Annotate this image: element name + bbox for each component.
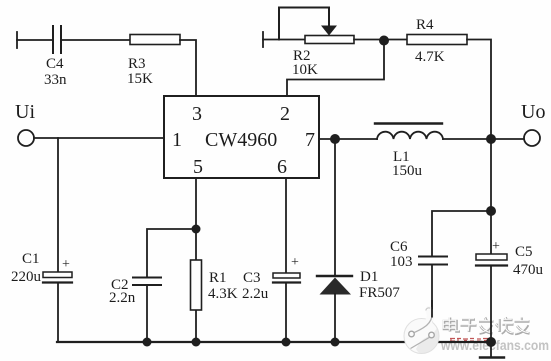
resistor R4	[407, 35, 467, 45]
svg-text:103: 103	[390, 254, 413, 270]
resistor R3	[130, 35, 180, 45]
svg-text:5: 5	[193, 156, 203, 178]
svg-text:D1: D1	[360, 269, 378, 285]
ground rail wire	[57, 341, 491, 343]
wire pin5	[195, 178, 197, 260]
svg-text:4.3K: 4.3K	[208, 286, 238, 302]
input terminal top-left	[16, 32, 18, 48]
svg-text:FR507: FR507	[359, 285, 400, 301]
capacitor C2	[133, 278, 161, 286]
svg-text:2: 2	[280, 103, 290, 125]
wire	[180, 40, 196, 96]
node pin7 junction	[330, 134, 340, 144]
capacitor C5	[476, 254, 507, 260]
svg-text:C3: C3	[243, 270, 261, 286]
resistor R1	[191, 260, 202, 310]
wire output down	[490, 139, 492, 254]
wire D1 branch	[334, 139, 336, 276]
svg-text:Uo: Uo	[521, 101, 545, 123]
svg-text:C6: C6	[390, 239, 408, 255]
op-amp U1 CW4960	[164, 96, 319, 178]
wire to pin 2	[287, 41, 384, 97]
wire C2 branch	[147, 229, 196, 277]
wire pin1	[34, 137, 164, 139]
node rail junctions	[143, 337, 497, 347]
svg-text:2.2n: 2.2n	[109, 290, 136, 306]
wire pin7	[319, 138, 377, 140]
wire C6 branch	[432, 211, 491, 256]
wire C1 branch	[57, 138, 59, 272]
inductor L1	[375, 122, 442, 124]
svg-text:CW4960: CW4960	[205, 129, 277, 151]
node C6 junction	[486, 206, 496, 216]
svg-text:R3: R3	[128, 56, 146, 72]
wire	[263, 39, 305, 41]
svg-text:+: +	[62, 257, 70, 272]
potentiometer R2 terminal	[262, 32, 264, 47]
node pin5/C2 junction	[192, 225, 201, 234]
svg-text:Ui: Ui	[15, 101, 35, 123]
svg-text:1: 1	[172, 129, 182, 151]
node R2/R4 junction	[379, 36, 389, 46]
svg-text:33n: 33n	[44, 72, 67, 88]
capacitor C3	[273, 273, 300, 278]
capacitor C4	[53, 26, 61, 53]
svg-text:7: 7	[305, 129, 315, 151]
svg-text:6: 6	[277, 156, 287, 178]
ground	[480, 356, 504, 358]
svg-text:220u: 220u	[11, 269, 42, 285]
wire	[17, 39, 52, 41]
wire pin6	[285, 178, 287, 273]
node output junction	[486, 134, 496, 144]
svg-text:2.2u: 2.2u	[242, 286, 269, 302]
svg-text:10K: 10K	[292, 62, 318, 78]
svg-text:3: 3	[192, 103, 202, 125]
wire	[443, 138, 524, 140]
svg-text:+: +	[291, 255, 299, 270]
input port Ui	[18, 130, 34, 146]
svg-text:4.7K: 4.7K	[415, 49, 445, 65]
diode D1	[317, 275, 352, 277]
watermark logo disc (on top of rail)	[404, 300, 439, 354]
svg-text:15K: 15K	[127, 71, 153, 87]
capacitor C1	[43, 272, 72, 278]
op-amp U1 text CW4960 and pins	[172, 103, 315, 178]
wire	[467, 40, 491, 140]
svg-text:470u: 470u	[513, 262, 544, 278]
wire C6 visible above logo tail	[431, 300, 433, 318]
output port Uo	[524, 130, 540, 146]
svg-text:C1: C1	[22, 251, 40, 267]
svg-text:R1: R1	[209, 270, 227, 286]
wire wiper loop	[279, 8, 329, 40]
svg-text:R4: R4	[416, 17, 434, 33]
wire	[354, 39, 407, 41]
watermark text 电子发烧友 (drawn strokes, under circuit ink)	[444, 318, 530, 335]
svg-text:C5: C5	[515, 244, 533, 260]
svg-text:+: +	[492, 239, 500, 254]
svg-text:C4: C4	[46, 56, 64, 72]
svg-text:150u: 150u	[392, 163, 423, 179]
capacitor C6	[419, 257, 447, 265]
potentiometer R2	[305, 36, 354, 44]
watermark small red text	[450, 338, 494, 342]
wire	[62, 39, 130, 41]
